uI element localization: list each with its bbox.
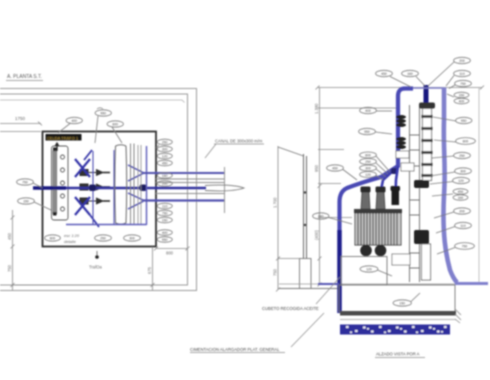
callout top right 2 — [446, 70, 470, 86]
foundation callout — [360, 266, 392, 276]
insulator stack lower — [396, 137, 406, 149]
callout 400 mid — [313, 213, 352, 224]
callout cluster top B — [107, 121, 123, 143]
pole row 3 — [80, 198, 110, 204]
blue grade stub left — [318, 283, 339, 285]
svg-text:TrafOa: TrafOa — [89, 265, 103, 270]
transformer left bushing — [361, 187, 371, 210]
svg-text:600: 600 — [112, 122, 118, 126]
svg-text:esc 1:20: esc 1:20 — [64, 233, 80, 238]
callout top right 1 — [428, 57, 470, 86]
arrester sheds — [422, 115, 433, 177]
wall inner line — [0, 100, 185, 103]
callout right single a — [157, 173, 172, 179]
svg-text:A. PLANTA S.T.: A. PLANTA S.T. — [7, 74, 42, 80]
callout right 180 — [430, 177, 469, 184]
svg-text:300: 300 — [129, 236, 135, 240]
svg-text:CUBETO RECOGIDA ACEITE: CUBETO RECOGIDA ACEITE — [262, 306, 319, 311]
blue channel line upper — [142, 172, 225, 174]
bottom middle dimension — [147, 247, 155, 290]
svg-text:1.380: 1.380 — [314, 103, 319, 114]
callout stack right r3 — [157, 230, 172, 243]
svg-text:750: 750 — [22, 180, 28, 184]
callout 950 top — [402, 70, 425, 86]
label cimentacion — [190, 313, 324, 353]
svg-text:450: 450 — [381, 72, 387, 76]
callouts bottom inside cell — [45, 233, 141, 244]
callout right 120 — [433, 117, 472, 124]
top dimension line — [316, 86, 485, 90]
callout left 150 top — [360, 107, 392, 113]
svg-text:1.700: 1.700 — [273, 197, 278, 208]
bus knot left — [89, 185, 96, 192]
channel gray line 3 — [156, 193, 225, 195]
column blob low — [414, 230, 429, 244]
svg-text:400: 400 — [459, 99, 465, 103]
callout cluster top A — [95, 108, 111, 143]
svg-text:950: 950 — [461, 119, 467, 123]
wall middle line — [0, 94, 188, 285]
callout small pair right 2 — [432, 189, 468, 201]
foundation footing — [339, 285, 455, 312]
svg-text:300: 300 — [460, 169, 466, 173]
blue riser diagonal top — [84, 150, 92, 160]
insulator stack upper — [396, 115, 406, 127]
TC box 2 — [401, 163, 414, 171]
callout right 211 — [434, 208, 470, 218]
navy busbar dark segment — [33, 186, 66, 190]
left dimension chain — [7, 210, 153, 290]
svg-text:detalle: detalle — [64, 239, 77, 244]
mast pedestal — [300, 259, 312, 289]
wall outer line top/right/bottom — [0, 89, 197, 291]
transformer wheel right — [375, 245, 387, 257]
svg-text:CIMENTACION ALARGADOR PLAT. GE: CIMENTACION ALARGADOR PLAT. GENERAL — [190, 347, 280, 352]
svg-text:160: 160 — [458, 196, 464, 200]
terminal cylinder low — [422, 244, 431, 280]
svg-text:200: 200 — [162, 182, 168, 186]
svg-text:400: 400 — [71, 119, 77, 123]
blue drop to center bushing — [381, 170, 394, 190]
svg-text:250: 250 — [162, 140, 168, 144]
svg-text:150: 150 — [399, 301, 405, 305]
svg-text:160: 160 — [162, 174, 168, 178]
callout 150 mid — [327, 165, 357, 180]
steel column — [410, 105, 420, 282]
callout pair above cell — [58, 117, 82, 133]
TC box 1 — [396, 151, 409, 158]
transformer center bushing — [376, 187, 386, 210]
svg-text:110: 110 — [162, 204, 168, 208]
canal label — [205, 139, 264, 159]
svg-text:950: 950 — [314, 164, 319, 172]
blue cross X2 — [75, 197, 90, 215]
svg-text:CELDA TRAFO 1: CELDA TRAFO 1 — [47, 136, 79, 141]
svg-text:950: 950 — [162, 238, 168, 242]
callout pair left lower — [18, 198, 51, 210]
blue hatch strip — [340, 325, 450, 335]
svg-text:(400): (400) — [314, 230, 319, 240]
column blob mid — [414, 180, 429, 188]
bus knot right — [140, 185, 147, 192]
svg-text:450: 450 — [332, 166, 338, 170]
callout top right 3 — [449, 80, 471, 88]
callout stack right r1 — [156, 139, 172, 166]
svg-text:120: 120 — [162, 154, 168, 158]
svg-text:160: 160 — [318, 214, 324, 218]
callout left 600 — [359, 128, 392, 134]
blue vertical bus left — [92, 151, 94, 224]
svg-text:750: 750 — [273, 268, 278, 276]
lens wall A — [115, 145, 127, 225]
svg-text:120: 120 — [365, 173, 371, 177]
svg-text:ALZADO VISTA POR A: ALZADO VISTA POR A — [376, 352, 420, 357]
blue top link — [413, 87, 444, 89]
grade line right — [279, 283, 472, 285]
svg-text:450: 450 — [162, 161, 168, 165]
bottom reference dot — [89, 251, 103, 270]
arrow mark above switch — [55, 143, 59, 151]
svg-text:250: 250 — [459, 154, 465, 158]
callout stack right r2 — [157, 203, 172, 223]
slab dark bar — [340, 311, 456, 316]
callout small pair right — [447, 92, 469, 104]
blue grade run right — [455, 282, 488, 285]
callout 750 top — [376, 70, 411, 87]
callout right 171 — [430, 168, 471, 176]
transformer cell rectangle — [43, 132, 157, 247]
svg-text:200: 200 — [459, 209, 465, 213]
svg-text:1750: 1750 — [15, 116, 26, 121]
svg-text:150: 150 — [162, 218, 168, 222]
svg-text:250: 250 — [365, 160, 371, 164]
blue fan upper — [128, 165, 143, 209]
pole row 1 — [80, 170, 110, 176]
svg-text:300: 300 — [365, 166, 371, 170]
wall pair C — [137, 145, 139, 224]
wall pair B — [130, 144, 132, 225]
blue bottom link — [66, 224, 147, 226]
svg-text:600: 600 — [50, 236, 56, 240]
svg-text:750: 750 — [162, 211, 168, 215]
svg-text:400: 400 — [162, 231, 168, 235]
svg-text:450: 450 — [7, 232, 12, 240]
big blue cable dark lower — [337, 230, 341, 313]
callout left stack — [360, 152, 390, 180]
callout right 2600 — [434, 138, 475, 145]
navy cable top right — [424, 85, 429, 104]
transformer right bushing — [391, 186, 401, 205]
transformer wheel left — [360, 245, 372, 257]
channel end cap — [224, 167, 226, 213]
MV switch unit — [52, 146, 69, 220]
svg-text:CANAL DE 300x300 m/m: CANAL DE 300x300 m/m — [215, 139, 263, 144]
svg-text:250: 250 — [100, 236, 106, 240]
channel gray line 2 — [156, 182, 225, 184]
svg-text:150: 150 — [23, 199, 29, 203]
svg-text:800: 800 — [166, 251, 174, 256]
main navy busbar — [33, 187, 206, 190]
svg-text:600: 600 — [365, 153, 371, 157]
svg-text:950: 950 — [364, 130, 370, 134]
callout right 225 — [436, 222, 471, 233]
svg-text:750: 750 — [462, 244, 468, 248]
callout 750 bottom — [393, 293, 420, 306]
svg-text:450: 450 — [458, 190, 464, 194]
dimension 800 — [154, 247, 190, 256]
arrester cap — [419, 103, 435, 109]
left dim vertical 2 — [273, 146, 301, 292]
arrester cylinder — [423, 109, 432, 181]
callout right single b — [157, 181, 172, 187]
svg-text:200: 200 — [459, 59, 465, 63]
title A.PLANTA — [6, 74, 43, 81]
blue vertical at lens wall — [113, 150, 115, 224]
svg-text:600: 600 — [463, 139, 469, 143]
blue riser diagonal bottom — [90, 215, 99, 227]
big blue cable — [340, 89, 414, 314]
conductor break lens — [205, 185, 244, 191]
svg-text:950: 950 — [100, 111, 106, 115]
dimension 1750 top-left — [0, 116, 42, 132]
blue drop to right bushing — [396, 166, 399, 196]
svg-text:750: 750 — [7, 264, 12, 272]
junction box low — [392, 254, 410, 265]
pole row 2 — [80, 184, 110, 190]
blue cross X1 — [75, 159, 90, 177]
long light blue cable right — [443, 88, 457, 283]
transformer lid — [354, 209, 402, 213]
blue vertical wall line — [146, 146, 148, 225]
svg-text:675: 675 — [147, 266, 152, 274]
svg-text:120: 120 — [458, 179, 464, 183]
ground line — [279, 288, 341, 290]
label alzado — [375, 352, 425, 358]
mast pole — [304, 154, 307, 259]
slab bottom line — [340, 319, 456, 321]
channel gray line 1 — [156, 178, 225, 180]
blue channel line lower — [142, 199, 225, 201]
svg-text:160: 160 — [407, 72, 413, 76]
label cubeto — [262, 277, 340, 311]
right thin guide line — [478, 88, 480, 284]
transformer radiator body — [355, 213, 401, 245]
callout right 155 — [432, 152, 470, 158]
mast brace — [278, 147, 304, 156]
left dim vertical 1 — [314, 88, 398, 287]
foundation plinth — [341, 257, 387, 286]
svg-text:300: 300 — [162, 147, 168, 151]
callout pair left upper — [17, 179, 43, 188]
callout right MOC — [437, 243, 474, 254]
svg-text:110: 110 — [460, 224, 466, 228]
svg-text:150: 150 — [459, 93, 465, 97]
svg-text:750: 750 — [460, 82, 466, 86]
cable clamp knot — [391, 168, 398, 174]
cell label bar — [46, 134, 82, 141]
svg-text:110: 110 — [459, 72, 465, 76]
svg-text:400: 400 — [365, 109, 371, 113]
slab end hatch — [455, 309, 461, 323]
svg-text:120: 120 — [366, 267, 372, 271]
